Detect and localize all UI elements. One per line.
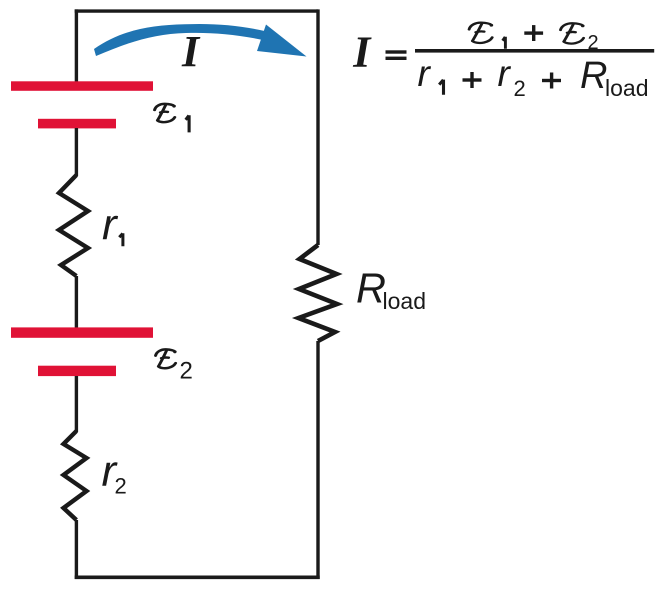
equation numerator E2 <box>561 23 585 43</box>
svg-text:R: R <box>580 55 607 97</box>
label E2 (emf 2) <box>156 349 193 384</box>
wire: left segment between E1 and r1 <box>75 128 78 176</box>
svg-text:r: r <box>498 53 512 94</box>
equation numerator E1 <box>469 23 493 43</box>
svg-text:load: load <box>605 75 648 101</box>
label E1 (emf 1) <box>155 104 190 133</box>
wire: left vertical top segment <box>75 9 78 82</box>
battery E2 short plate <box>38 366 116 376</box>
svg-text:I: I <box>181 27 201 76</box>
wire: bottom horizontal <box>75 575 320 579</box>
equation denominator plus 2 <box>542 79 561 82</box>
label R_load <box>356 265 426 314</box>
equation fraction bar <box>415 49 654 53</box>
svg-text:I: I <box>352 27 372 76</box>
equation denominator plus 1 <box>463 78 482 81</box>
resistor R_load zigzag <box>299 245 338 341</box>
svg-text:2: 2 <box>588 32 599 54</box>
resistor r1 zigzag <box>59 175 88 276</box>
wire: left segment between r1 and E2 <box>75 276 78 328</box>
label r1 <box>102 201 123 250</box>
wire: right vertical lower <box>316 341 319 579</box>
battery E1 short plate <box>38 119 116 129</box>
battery E2 long plate <box>11 327 153 337</box>
label r2 <box>102 447 127 499</box>
wire: top horizontal <box>75 9 318 12</box>
wire: left segment between E2 and r2 <box>75 376 78 432</box>
equation: I = (E1+E2)/(r1+r2+Rload) <box>352 23 654 101</box>
svg-text:r: r <box>102 201 119 250</box>
equation numerator plus <box>524 31 543 34</box>
battery E1 long plate <box>11 81 153 91</box>
svg-text:2: 2 <box>180 358 193 385</box>
svg-text:R: R <box>356 265 386 312</box>
equation equals sign <box>386 50 407 53</box>
svg-text:2: 2 <box>115 474 127 499</box>
equation numerator subscript 1 <box>503 37 506 49</box>
wire: right vertical upper (to R_load) <box>316 9 319 245</box>
current arrow I (blue curved tapered shaft) <box>94 24 266 56</box>
svg-text:2: 2 <box>514 76 526 101</box>
wire: left segment below r2 <box>75 520 78 579</box>
current arrow I head <box>257 25 307 57</box>
resistor r2 zigzag <box>64 431 87 520</box>
svg-text:r: r <box>418 53 432 94</box>
svg-text:load: load <box>383 288 426 314</box>
